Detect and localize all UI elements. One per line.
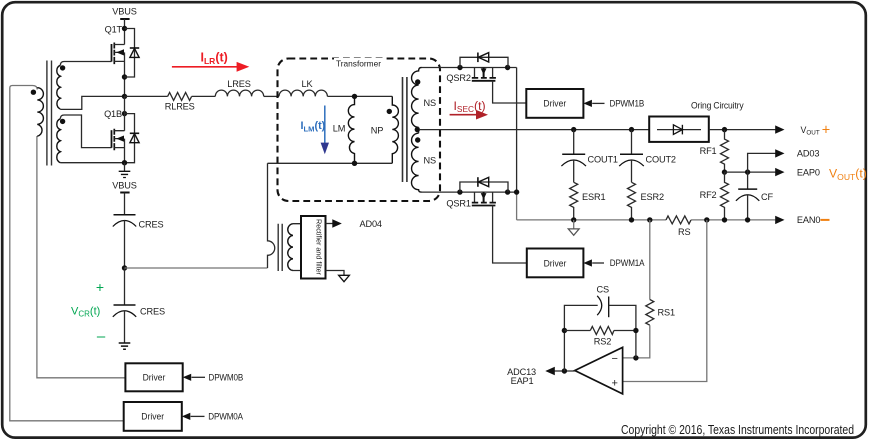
svg-text:COUT1: COUT1 [588,155,618,165]
node: COUT1 top [571,127,576,132]
driver box (DPWM0A) [124,402,182,431]
node: Q1B drain [122,111,127,116]
wire: RLRES to LRES [192,95,216,97]
wire: Q1B drain/source verticals [124,96,126,162]
svg-text:ESR1: ESR1 [582,192,605,202]
terminal arrow AD03 [775,149,784,157]
node: ESR1 bottom [571,217,576,222]
svg-text:COUT2: COUT2 [646,155,676,165]
svg-text:RF2: RF2 [700,190,717,200]
winding NS (bottom) [412,133,422,192]
svg-text:DPWM0B: DPWM0B [209,373,244,383]
capacitor CRES (upper) [113,215,136,268]
svg-text:RF1: RF1 [700,146,717,156]
ground below CRES (lower) [119,343,131,349]
transistor Q1B [112,129,125,151]
node: switch node (Q1T source / Q1B drain / resonant tank) [122,94,127,99]
T1 secondary top polarity dot [60,65,65,70]
wires: CT secondary into rectifier block [293,224,301,271]
transformer T1 secondary winding (top, drives Q1T) [57,65,61,109]
resistor RS2 [590,327,614,335]
wire: NS top to QSR2 [422,67,517,69]
winding NS (top) [412,68,422,128]
capacitor COUT2 [619,130,644,183]
node: RS2 right [633,328,638,333]
node: QSR2 source [505,65,510,70]
node: ESR2 bottom [629,217,634,222]
wire: op-amp + input from return rail (gray) [623,220,707,382]
node: Q1T drain [122,26,127,31]
svg-text:LRES: LRES [227,79,250,89]
svg-text:Driver: Driver [544,258,567,268]
resistor RF1 [721,130,729,173]
node: inverting input / feedback junction [633,355,638,360]
rectifier and filter block [301,216,326,279]
input arrow DPWM0B [183,374,192,381]
wire: T1 secondary top to Q1T gate [60,62,111,66]
wire: LK to LM/NP top node [327,95,392,97]
wire: driver DPWM0B output to T1 primary bottom (gray) [37,136,126,378]
node: op-amp + sense tap [704,217,709,222]
svg-text:RS2: RS2 [594,337,611,347]
wire: T1 secondary top lower terminal to switch node [60,96,124,109]
svg-text:QSR2: QSR2 [446,73,470,83]
svg-text:Driver: Driver [143,373,166,383]
svg-text:CF: CF [761,192,773,202]
node: QSR1 drain [457,189,462,194]
body diode of QSR1 [460,177,508,192]
ground at Q1B source [119,163,131,178]
wire: divider tap to EAP0 [725,171,777,173]
driver box (DPWM0B) [125,363,182,391]
wire: AD03 branch [748,153,776,172]
capacitor CF [736,172,759,220]
svg-text:EAP0: EAP0 [797,167,820,177]
node: center tap [415,127,420,132]
resistor RF2 [721,172,729,220]
diode inside oring box [657,125,701,135]
node: output/feedback junction [562,368,567,373]
node: VOUT / RF1 [722,127,727,132]
wire: NS center tap link [418,127,420,133]
wire: return rail (gray) [517,219,666,221]
NS bottom polarity dot [415,137,420,142]
driver box (DPWM1A) [527,249,584,278]
T1 primary polarity dot [31,90,36,95]
node: QSR1 source rail junction [514,189,519,194]
wire: CT primary (with single-turn hump) down to resonant cap midpoint [268,163,275,268]
node: Q1T source / diode junction [122,74,127,79]
transformer T1 secondary winding (bottom, drives Q1B) [57,119,61,163]
svg-text:−: − [611,353,617,365]
svg-text:Rectifier and filter: Rectifier and filter [315,219,324,276]
svg-text:CS: CS [596,284,608,294]
svg-text:EAN0: EAN0 [797,215,820,225]
node: RF1/RF2 divider tap [722,169,727,174]
svg-text:NP: NP [371,126,383,136]
svg-text:ESR2: ESR2 [641,192,664,202]
resistor RS1 [646,300,654,326]
wire: center tap to oring circuitry (VOUT rail) [419,129,649,131]
svg-text:AD04: AD04 [360,219,382,229]
oring circuitry box [649,117,709,142]
wire: T1 secondary bottom lower terminal to Q1B source rail [60,162,124,164]
svg-text:+: + [96,279,104,295]
inductor LM (magnetizing) [348,96,354,163]
svg-text:Q1T: Q1T [105,25,123,35]
wire: op-amp output [555,370,575,372]
svg-text:Transformer: Transformer [336,59,381,69]
wire: QSR2 source down to output return rail [516,68,518,193]
winding NP (primary) [392,96,398,163]
transistor QSR2 [472,68,496,81]
node: RS2 left [562,328,567,333]
svg-text:CRES: CRES [139,220,164,230]
node: COUT2 top [629,127,634,132]
body diode of QSR2 [460,53,508,68]
transistor QSR1 [472,192,496,205]
wire: NS bottom to QSR1 [422,191,517,193]
wire: oring to VOUT [709,129,776,131]
svg-text:Copyright © 2016, Texas Instru: Copyright © 2016, Texas Instruments Inco… [621,422,854,437]
output arrow AD04 [326,223,333,225]
NS top polarity dot [415,79,420,84]
svg-text:Driver: Driver [543,99,566,109]
svg-text:NS: NS [423,156,435,166]
svg-text:Oring Circuitry: Oring Circuitry [691,101,744,111]
svg-text:DPWM1A: DPWM1A [610,258,645,268]
svg-text:CRES: CRES [140,307,165,317]
wire: LM/NP bottom rail out to current transformer [268,162,393,164]
driver box (DPWM1B) [526,89,583,118]
capacitor CS [597,296,609,317]
wire: CS to right feedback leg [609,305,636,358]
transformer core (main) [403,77,407,182]
polarity - (orange) [821,219,830,221]
capacitor CRES (lower) [113,268,136,343]
dashed boundary box "Transformer" [278,59,441,202]
wire: QSR2 gate to driver DPWM1B [493,81,527,103]
node: Q1B source [122,160,127,165]
wire: switch node to RLRES [125,95,168,97]
node: CF / AD03 branch [745,169,750,174]
svg-text:Driver: Driver [141,412,164,422]
wire: VBUS to CRES upper [124,193,126,215]
ground at return rail [568,220,579,235]
input arrow DPWM1B [583,100,592,107]
ground at rectifier block output [326,271,350,282]
wire: RS2 branch [564,330,636,332]
wire: RS1 from return rail (gray) [649,220,651,300]
svg-text:NS: NS [423,98,435,108]
wire: VBUS to Q1T drain [124,19,126,45]
svg-text:RLRES: RLRES [165,101,195,111]
svg-text:+: + [611,377,617,389]
resistor RLRES [168,92,192,100]
NP polarity dot [387,109,392,114]
inductor LK (leakage) [279,90,327,96]
transistor Q1T [112,43,125,65]
input arrow DPWM0A [182,413,191,420]
current transformer core [278,224,282,271]
terminal arrow ADC13/EAP1 [545,367,555,376]
svg-text:VBUS: VBUS [112,180,136,190]
wire: driver DPWM0A output to T1 primary top (gray) [10,86,124,421]
svg-text:RS1: RS1 [658,308,675,318]
body diode of Q1B [125,114,140,163]
svg-text:RS: RS [678,227,690,237]
node: LM/NP top [352,94,357,99]
svg-text:DPWM1B: DPWM1B [610,98,645,108]
svg-text:VBUS: VBUS [112,7,136,17]
node: RF2 bottom [722,217,727,222]
terminal arrow VOUT [775,125,784,133]
wire: T1 secondary bottom to Q1B gate [60,115,111,148]
resistor RS [666,216,691,224]
wire: QSR1 gate to driver DPWM1A [493,206,527,264]
resistor ESR1 [570,182,578,220]
node: CF bottom [745,217,750,222]
node: resonant cap midpoint [122,265,127,270]
input arrow DPWM1A [583,259,592,266]
capacitor COUT1 [561,130,586,183]
svg-text:AD03: AD03 [797,149,819,159]
wire: Q1T source to switch node [124,52,126,96]
wire: RS1 to op-amp inverting input [623,325,650,358]
T1 secondary bottom polarity dot [60,119,65,124]
transformer T1 primary winding [37,88,43,136]
inductor LRES [215,90,263,96]
svg-text:–: – [97,328,106,345]
node: RS1 tap [647,217,652,222]
wire: feedback loop left leg [564,305,597,371]
svg-text:Q1B: Q1B [104,109,122,119]
current transformer secondary winding [288,224,293,271]
svg-text:+: + [822,123,830,139]
svg-text:LK: LK [302,79,314,89]
op-amp U1 (error amplifier, output to left) [575,347,623,394]
svg-text:EAP1: EAP1 [511,376,534,386]
node: QSR2 drain [457,65,462,70]
resistor ESR2 [628,182,636,220]
wire: LRES into transformer block [264,95,279,97]
node: QSR1 source [505,189,510,194]
terminal arrow EAN0 [775,216,784,224]
transformer T1 core [47,61,52,166]
svg-text:DPWM0A: DPWM0A [208,412,243,422]
node: LM bottom [352,161,357,166]
terminal arrow EAP0 [775,168,784,176]
svg-text:QSR1: QSR1 [446,199,470,209]
svg-text:LM: LM [333,124,345,134]
wire: resonant cap midpoint to current-transformer primary (gray) [125,267,268,269]
body diode of Q1T [125,29,140,78]
